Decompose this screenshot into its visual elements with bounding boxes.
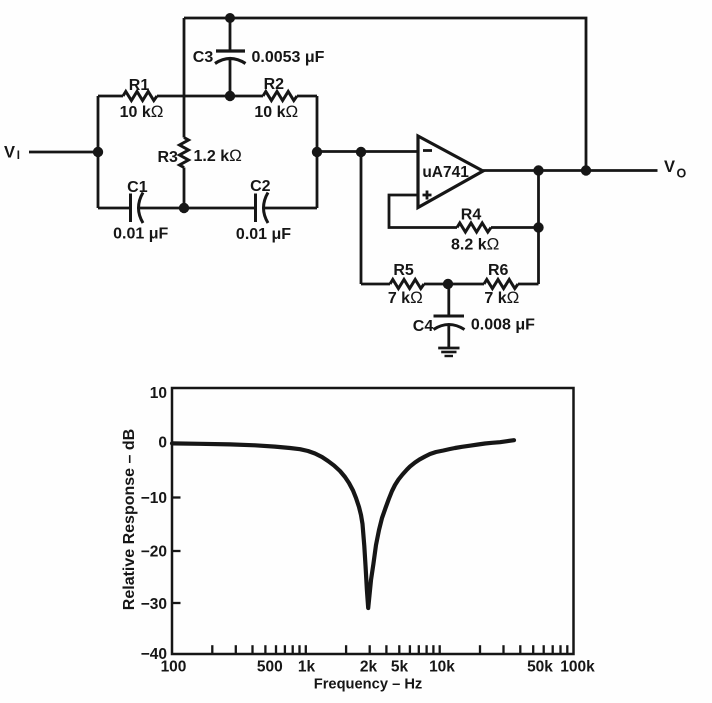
svg-text:V: V [4,144,15,162]
op-amp plus pin mark [423,191,432,200]
svg-text:10 kΩ: 10 kΩ [120,102,164,121]
wire: non-inverting input feedback from R4 [389,195,457,228]
svg-text:7 kΩ: 7 kΩ [484,288,519,307]
svg-text:C2: C2 [250,178,271,195]
svg-text:50k: 50k [527,659,553,676]
wire: top row middle segment (crosses bootstrap line) [157,95,263,98]
resistor R2 [263,92,297,101]
wire: top row right segment [297,95,317,98]
node A: R1/R2/C3 junction [225,91,235,101]
svg-text:R5: R5 [393,262,414,279]
wire: bottom row right segment [265,207,318,210]
resistor R5 [390,280,424,289]
svg-text:0.01 μF: 0.01 μF [113,226,168,243]
chart: y-axis labels [141,385,167,663]
resistor R1 [123,92,157,101]
chart: x-axis minor log ticks [212,645,567,654]
svg-text:10: 10 [150,385,167,402]
wire: R6 right segment [518,283,539,286]
svg-text:8.2 kΩ: 8.2 kΩ [451,234,499,253]
svg-text:R6: R6 [488,262,509,279]
svg-text:0.01 μF: 0.01 μF [236,226,291,243]
wire: left column of twin-T [97,96,100,208]
wire: top feedback loop (op-amp output to twin-T bootstrap) [184,18,586,171]
node: R4 / right column junction [533,222,543,232]
wire: top row left segment [98,95,123,98]
svg-text:10 kΩ: 10 kΩ [254,102,298,121]
svg-text:10k: 10k [429,659,455,676]
chart: y-axis ticks [172,444,181,603]
wire: branch down to R5 [360,152,363,285]
wire: right column of twin-T [316,96,319,208]
svg-text:1.2 kΩ: 1.2 kΩ [194,146,242,165]
svg-text:−20: −20 [141,544,167,561]
capacitor C2 [254,194,257,223]
node B: C1/C2/R3 junction [179,203,189,213]
wire: left bootstrap vertical down to R3 [183,18,186,138]
wire: R5 row left segment [361,283,390,286]
wire: twin-T output to op-amp inverting input [317,150,418,153]
wire: R4 right segment [491,226,539,229]
ground [438,347,459,350]
svg-text:0.008 μF: 0.008 μF [471,317,535,334]
svg-text:100k: 100k [560,659,595,676]
chart: frequency response plot box [172,388,574,654]
svg-text:2k: 2k [360,659,378,676]
chart: notch response curve [172,440,514,608]
svg-text:Relative Response – dB: Relative Response – dB [121,429,138,610]
wire: C3 top stem [229,18,232,51]
svg-text:R1: R1 [129,77,150,94]
capacitor C3 [216,49,245,52]
svg-text:C3: C3 [193,49,214,66]
node: Vi input junction [93,147,103,157]
svg-text:5k: 5k [391,659,409,676]
svg-text:0: 0 [158,435,167,452]
wire: right column from output down through R4 to R6 [537,171,540,285]
wire: Vi input lead [29,151,98,154]
svg-text:R2: R2 [264,76,285,93]
svg-text:R3: R3 [157,149,178,166]
svg-text:R4: R4 [461,206,482,223]
wire: R3 bottom to node B [183,168,186,209]
wire: bottom row middle segment [140,207,256,210]
node: twin-T output junction [312,147,322,157]
svg-text:−10: −10 [141,490,167,507]
resistor R6 [484,280,518,289]
svg-text:uA741: uA741 [422,164,469,181]
svg-text:0.0053 μF: 0.0053 μF [252,49,325,66]
capacitor C4 [434,315,465,318]
resistor R3 [180,138,189,168]
svg-text:7 kΩ: 7 kΩ [388,288,423,307]
op-amp U1 uA741 [418,136,483,208]
node: feedback takeoff junction [581,165,591,175]
svg-text:1k: 1k [298,659,316,676]
svg-text:500: 500 [257,659,283,676]
svg-text:C1: C1 [127,179,148,196]
node: R5 branch junction [356,147,366,157]
chart: x-axis labels [161,659,596,676]
node: top wire / C3 junction [225,13,235,23]
wire: C3 bottom stem to node A [229,60,232,97]
op-amp minus pin mark [423,149,432,152]
svg-text:C4: C4 [413,318,434,335]
resistor R4 [457,223,491,232]
svg-text:Frequency – Hz: Frequency – Hz [314,677,423,693]
node: output / R4 column junction [533,165,543,175]
wire: op-amp output line to Vo [483,169,658,172]
svg-text:100: 100 [161,659,187,676]
wire: C4 to ground [447,326,450,348]
svg-text:−30: −30 [141,596,167,613]
node: R5/R6/C4 junction [443,279,453,289]
wire: between R5 and R6 [424,283,484,286]
wire: bottom row left segment [98,207,131,210]
svg-text:O: O [677,167,687,181]
capacitor C1 [129,194,132,223]
svg-text:V: V [664,158,675,176]
wire: C4 top stem [447,284,450,316]
svg-text:I: I [17,150,20,162]
